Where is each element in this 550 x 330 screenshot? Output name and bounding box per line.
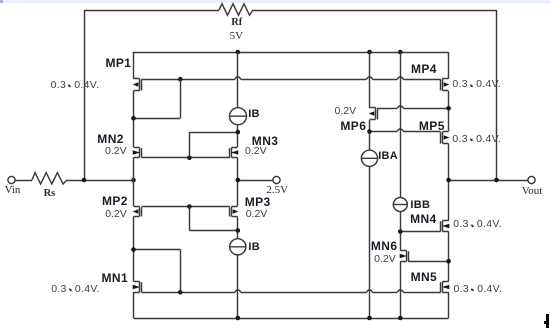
label Rs (44, 189, 56, 200)
wire: outer feedback loop top (84, 10, 219, 12)
wire: Vout line (449, 180, 529, 182)
label MN2 (97, 133, 124, 145)
label MP4 (411, 63, 437, 75)
label 2.5V (266, 185, 288, 196)
wire: right outer vertical (496, 10, 498, 180)
label 0.3,0.4V (51, 284, 100, 295)
label MN1 (102, 272, 129, 284)
wire: VSS bottom rail (134, 318, 449, 320)
label 0.3,0.4V (452, 79, 501, 90)
label 5V (230, 31, 243, 42)
top page strip (0, 0, 550, 3)
wire: Vin to Rs (15, 180, 32, 182)
wire: Rs to input node (67, 180, 134, 182)
transistor MN5 (441, 282, 449, 293)
wire: VDD top rail (134, 52, 449, 54)
label Vout (522, 186, 543, 197)
label 0.3,0.4V (452, 134, 501, 145)
label Vin (5, 185, 21, 196)
transistor MN6 (401, 251, 409, 262)
label MN5 (411, 271, 438, 283)
node: feedback/input junction (82, 178, 87, 183)
wire: right branch chain x=448.6 (448, 52, 450, 79)
wire: MN1 drain tie (134, 249, 181, 251)
label MP6 (340, 120, 366, 132)
wire: MN6 gate line (408, 261, 448, 263)
wire: MP3 diode tie riser (189, 207, 191, 231)
wire: MP2-MP3 gate line (142, 206, 230, 208)
current source IB (top) (230, 108, 247, 125)
current source IBA (361, 150, 377, 166)
label MN4 (410, 213, 437, 225)
label 0.2V (335, 106, 357, 117)
label 0.3,0.4V (453, 219, 502, 230)
label 0.2V (105, 146, 127, 157)
label Rf (231, 18, 242, 29)
label 0.2V (246, 209, 268, 220)
wire: middle branch chain x=237.8 (237, 52, 239, 108)
label 0.2V (105, 209, 127, 220)
wire: NMOS mirror gate line MN1-MN5 (142, 290, 441, 293)
label IBA (378, 151, 398, 162)
label IB (248, 242, 260, 253)
label IBB (410, 200, 430, 211)
terminal Vout (528, 176, 535, 183)
label MP1 (106, 57, 132, 69)
wire: MN2-MN3 gate line (142, 157, 230, 159)
label 0.3,0.4V (51, 80, 100, 91)
current source IB (bottom) (230, 239, 246, 255)
label 0.3,0.4V (454, 284, 503, 295)
transistor MN2 (134, 148, 142, 158)
wire: MP1 drain tie (134, 118, 181, 120)
resistor Rs (32, 173, 67, 184)
label MP2 (102, 195, 128, 207)
wire: MP6/IBA chain x=369.5 (369, 52, 371, 108)
wire: MN4 gate line (400, 231, 440, 233)
transistor MP6 (370, 108, 378, 120)
terminal 2.5V node (273, 176, 280, 183)
label 0.2V (245, 146, 267, 157)
wire: PMOS mirror gate line MP1-MP4 (142, 77, 441, 80)
label MP3 (245, 196, 271, 208)
resistor Rf (219, 4, 253, 15)
wire: left outer vertical (84, 10, 86, 180)
cursor artifact bottom right (546, 314, 549, 328)
terminal Vin (8, 176, 15, 183)
label MN6 (371, 240, 398, 252)
transistor MN3 (230, 148, 238, 158)
label 0.2V (374, 254, 396, 265)
transistor MN4 (441, 221, 449, 232)
transistor MP2 (134, 207, 142, 217)
label MP5 (419, 120, 445, 132)
transistor MP3 (230, 207, 238, 217)
wire: MN3 diode tie riser (189, 132, 191, 158)
wire: left branch chain x=133.5 (133, 52, 135, 79)
wire: MP5 gate line from MP6 drain (370, 129, 441, 132)
label MN3 (252, 135, 279, 147)
label IB (248, 109, 260, 120)
transistor MP4 (441, 79, 449, 91)
transistor MN1 (134, 282, 142, 293)
wire: 2.5V output tap (238, 180, 273, 182)
transistor MP1 (134, 79, 142, 91)
wire: MP6 gate line (378, 106, 449, 109)
wire: IBB/MN6 chain x=400.3 (400, 52, 402, 198)
transistor MP5 (441, 132, 449, 144)
current source IBB (393, 198, 407, 212)
